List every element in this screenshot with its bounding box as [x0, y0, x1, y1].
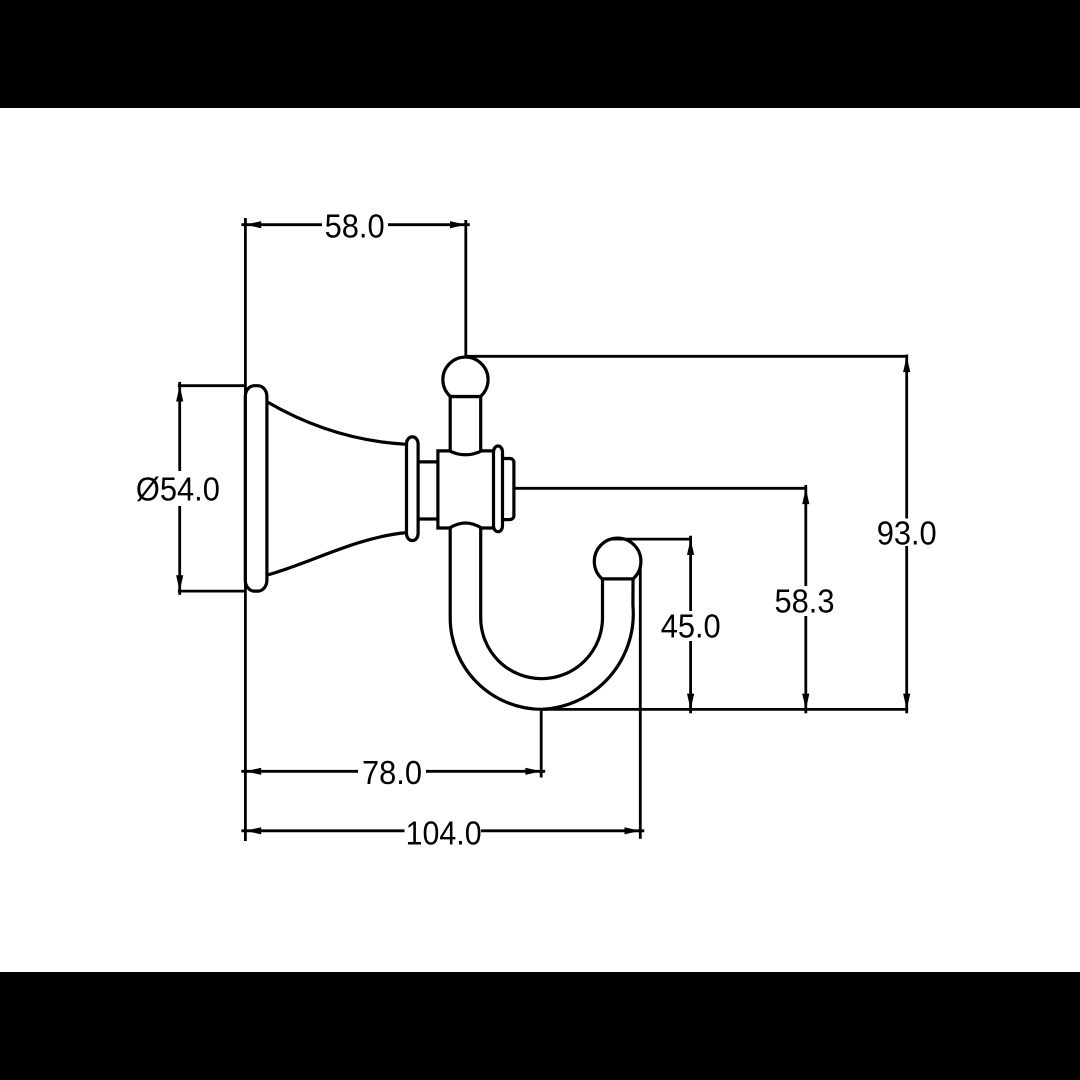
arrow 78.0 right — [525, 768, 541, 775]
ext line: hook bottom baseline — [541, 708, 908, 711]
svg-text:58.3: 58.3 — [775, 584, 835, 621]
ring 2 (collar right of block) — [494, 446, 503, 532]
arrow D54 bottom — [176, 575, 183, 591]
arrow 58.0 left — [245, 221, 261, 228]
arrow 58.3 bottom — [802, 694, 809, 710]
dim line 93.0 — [905, 355, 908, 714]
dim line 104.0 — [241, 829, 644, 832]
arrow 104.0 left — [245, 827, 261, 834]
dim line 45.0 — [689, 536, 692, 713]
top ball finial — [443, 357, 488, 396]
bottom black bar — [0, 972, 1080, 1080]
arrow 104.0 right — [625, 827, 641, 834]
svg-text:104.0: 104.0 — [406, 815, 482, 852]
ext line: wall face (left, full height) — [244, 218, 247, 841]
cone top profile — [267, 402, 407, 445]
hub block — [438, 451, 495, 528]
cone bottom profile — [267, 533, 407, 576]
dim line 58.3 — [804, 485, 807, 713]
ext line: hook axis (58.3) — [514, 487, 807, 490]
text masks — [132, 211, 941, 847]
svg-text:Ø54.0: Ø54.0 — [136, 471, 220, 508]
arrow 58.0 right — [450, 221, 466, 228]
neck bottom line — [418, 517, 439, 520]
ext line: post centre (58.0 right) — [464, 220, 467, 356]
neck top line — [418, 460, 439, 463]
svg-text:78.0: 78.0 — [362, 755, 422, 792]
arrow 45.0 top — [687, 539, 694, 555]
right cap — [496, 459, 514, 520]
ring 1 (collar at cone) — [407, 437, 419, 541]
top black bar — [0, 0, 1080, 108]
dim line D54.0 — [178, 382, 181, 595]
arrow D54 top — [176, 386, 183, 402]
arrow 45.0 bottom — [687, 694, 694, 710]
dimensions — [178, 218, 908, 841]
ext line: plate bottom (D54) — [178, 590, 246, 593]
arrow 78.0 left — [245, 768, 261, 775]
dim line 58.0 — [241, 223, 469, 226]
ext line: plate top (D54) — [178, 384, 246, 387]
dim line 78.0 — [241, 770, 545, 773]
svg-text:58.0: 58.0 — [325, 208, 385, 245]
wall plate (flange base, side view) — [245, 386, 267, 591]
svg-text:45.0: 45.0 — [661, 609, 721, 646]
ext line: hook ball top (45.0) — [612, 538, 692, 541]
arrow 58.3 top — [802, 488, 809, 504]
svg-text:93.0: 93.0 — [877, 516, 937, 553]
hook end ball — [594, 538, 641, 579]
ext line: top of post ball (93.0) — [466, 355, 908, 358]
hook tube (post + J hook) — [450, 397, 633, 710]
ext line: hook ball right tangent down (104.0 right) — [639, 567, 642, 839]
ext line: hook bottom tangent down (78.0 right) — [540, 711, 543, 778]
arrow 93.0 bottom — [903, 694, 910, 710]
arrow 93.0 top — [903, 356, 910, 372]
